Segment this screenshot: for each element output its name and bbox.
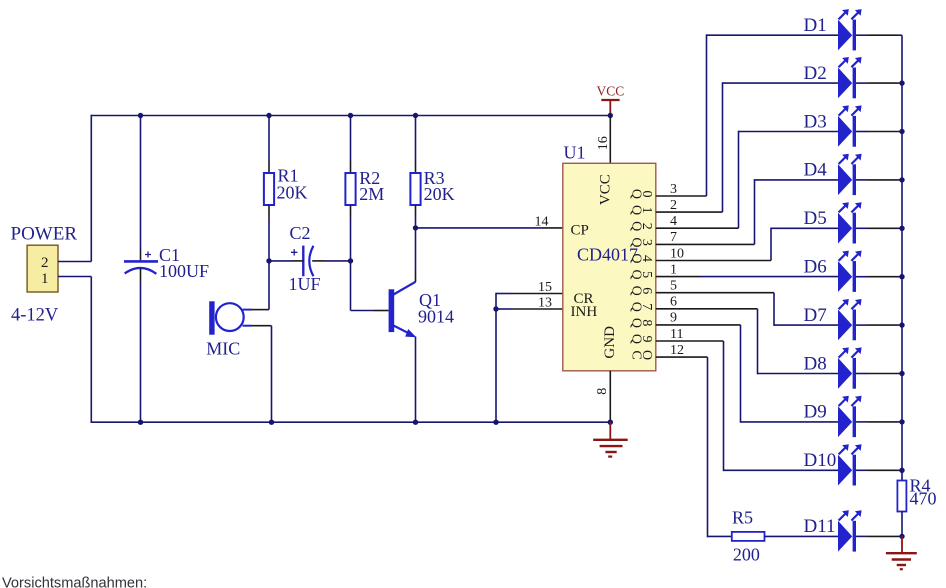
svg-text:13: 13 [538, 296, 552, 311]
node [413, 225, 418, 230]
svg-text:1: 1 [639, 207, 654, 214]
wire [898, 469, 902, 471]
wire [351, 310, 375, 312]
wire [868, 179, 898, 181]
svg-text:1: 1 [670, 262, 677, 277]
wire [415, 337, 417, 423]
wire [656, 308, 758, 310]
pin 16 [609, 116, 611, 164]
wire [738, 131, 740, 229]
wire [90, 115, 92, 262]
wire [723, 82, 839, 84]
wire [755, 179, 839, 181]
wire [856, 34, 868, 36]
svg-text:MIC: MIC [206, 338, 240, 358]
wire [656, 211, 723, 213]
node [138, 420, 143, 425]
svg-text:D10: D10 [804, 450, 837, 471]
svg-text:VCC: VCC [597, 84, 625, 99]
node [348, 258, 353, 263]
wire [656, 292, 774, 294]
resistor R3 [410, 173, 420, 205]
node [899, 534, 904, 539]
svg-text:12: 12 [670, 343, 684, 358]
pin 13 [511, 308, 563, 310]
node [608, 420, 613, 425]
wire [656, 243, 755, 245]
svg-text:GND: GND [602, 326, 618, 359]
svg-text:14: 14 [535, 214, 549, 229]
wire [416, 227, 543, 229]
svg-text:3: 3 [670, 182, 677, 197]
svg-text:10: 10 [670, 246, 684, 261]
wire [268, 309, 270, 311]
node [269, 420, 274, 425]
node [138, 113, 143, 118]
wire [898, 227, 902, 229]
svg-text:16: 16 [596, 136, 611, 150]
wire [271, 326, 273, 423]
LED D4 [838, 154, 862, 195]
node [899, 177, 904, 182]
svg-text:D2: D2 [804, 63, 827, 84]
svg-text:2: 2 [639, 223, 654, 230]
svg-text:8: 8 [595, 388, 610, 395]
wire [350, 261, 352, 311]
LED D10 [838, 444, 862, 485]
wire [898, 421, 902, 423]
wire [774, 324, 838, 326]
pin [312, 260, 325, 262]
pin [268, 161, 270, 173]
svg-text:O: O [639, 350, 654, 360]
pin 14 [542, 227, 563, 229]
node [899, 274, 904, 279]
wire [868, 469, 898, 471]
pin [415, 270, 417, 282]
wire [656, 276, 700, 278]
wire [722, 82, 724, 212]
wire [898, 179, 902, 181]
wire [758, 373, 839, 375]
svg-text:D3: D3 [804, 111, 827, 132]
wire [868, 82, 898, 84]
wire [495, 293, 497, 423]
svg-text:2M: 2M [359, 184, 384, 204]
node [899, 129, 904, 134]
node [348, 113, 353, 118]
pin [291, 260, 303, 262]
wire [140, 116, 142, 250]
transistor Q1 [389, 282, 417, 338]
node [266, 258, 271, 263]
svg-text:5: 5 [670, 279, 677, 294]
wire [901, 35, 903, 480]
wire [656, 260, 771, 262]
wire [765, 535, 839, 537]
wire [740, 325, 742, 423]
svg-text:4-12V: 4-12V [11, 306, 59, 326]
svg-text:1UF: 1UF [289, 274, 321, 294]
resistor R1 [264, 173, 274, 205]
wire [415, 116, 417, 162]
svg-text:0: 0 [639, 191, 654, 198]
svg-text:2: 2 [41, 255, 49, 271]
node [266, 113, 271, 118]
power VCC [597, 84, 625, 115]
LED D2 [838, 57, 862, 98]
svg-text:8: 8 [639, 319, 654, 326]
svg-text:U1: U1 [564, 143, 586, 163]
wire [856, 276, 868, 278]
svg-text:D1: D1 [804, 15, 827, 36]
LED D5 [838, 202, 862, 243]
pin [140, 268, 142, 281]
svg-text:R5: R5 [732, 507, 753, 527]
wire [773, 293, 775, 326]
pin [415, 161, 417, 173]
wire [350, 116, 352, 162]
resistor R5 [732, 532, 765, 541]
wire [868, 227, 898, 229]
pin [374, 310, 389, 312]
pin [350, 161, 352, 173]
wire [325, 260, 351, 262]
pin [243, 309, 252, 311]
wire [415, 217, 417, 270]
wire [868, 535, 898, 537]
LED D3 [838, 105, 862, 146]
ground [593, 422, 628, 456]
wire [757, 309, 759, 375]
pin [415, 205, 417, 217]
svg-text:C2: C2 [290, 223, 311, 243]
svg-text:3: 3 [639, 239, 654, 246]
pin 8 [609, 371, 611, 422]
pin 15 [511, 293, 563, 295]
svg-text:9: 9 [670, 311, 677, 326]
wire [656, 324, 741, 326]
wire [739, 131, 839, 133]
wire [268, 261, 270, 310]
svg-text:4: 4 [670, 214, 677, 229]
wire [741, 421, 839, 423]
wire [268, 116, 270, 162]
wire [898, 535, 902, 537]
svg-text:D8: D8 [804, 353, 827, 374]
wire [771, 227, 838, 229]
wire [856, 535, 868, 537]
LED D8 [838, 347, 862, 388]
wire [868, 421, 898, 423]
wire [350, 217, 352, 261]
wire [91, 421, 611, 423]
node [899, 80, 904, 85]
wire [898, 276, 902, 278]
wire [90, 277, 92, 423]
node [493, 420, 498, 425]
wire [700, 276, 838, 278]
wire [58, 276, 91, 278]
wire [856, 227, 868, 229]
node [413, 420, 418, 425]
svg-text:D11: D11 [804, 516, 836, 537]
node [493, 306, 498, 311]
pin [350, 205, 352, 217]
wire [496, 308, 511, 310]
LED D6 [838, 251, 862, 292]
pin [243, 325, 252, 327]
wire [723, 341, 725, 471]
wire [724, 469, 839, 471]
node [899, 468, 904, 473]
wire [268, 217, 270, 261]
wire [856, 179, 868, 181]
svg-text:CP: CP [571, 222, 589, 238]
svg-text:2: 2 [670, 198, 677, 213]
wire [91, 115, 611, 117]
svg-text:11: 11 [670, 327, 683, 342]
wire [868, 373, 898, 375]
svg-text:7: 7 [670, 230, 677, 245]
wire [898, 34, 902, 36]
svg-text:D4: D4 [804, 160, 828, 181]
svg-text:D7: D7 [804, 305, 827, 326]
svg-text:470: 470 [910, 488, 937, 508]
svg-text:VCC: VCC [598, 174, 614, 205]
svg-text:7: 7 [639, 303, 654, 310]
wire [868, 34, 898, 36]
ground [886, 536, 917, 569]
svg-text:100UF: 100UF [159, 261, 209, 281]
microphone MIC [209, 301, 244, 334]
wire [901, 512, 903, 537]
wire [868, 131, 898, 133]
wire [754, 179, 756, 244]
svg-text:9014: 9014 [418, 307, 454, 327]
node [899, 419, 904, 424]
node [413, 113, 418, 118]
svg-text:4: 4 [639, 255, 654, 262]
svg-text:20K: 20K [277, 182, 308, 202]
svg-text:5: 5 [639, 271, 654, 278]
wire [868, 324, 898, 326]
node [608, 113, 613, 118]
resistor R4 [897, 481, 906, 512]
svg-text:9: 9 [639, 336, 654, 343]
wire [856, 131, 868, 133]
wire [856, 373, 868, 375]
wire [856, 324, 868, 326]
node [899, 322, 904, 327]
svg-text:15: 15 [538, 280, 552, 295]
wire [656, 340, 724, 342]
wire [269, 260, 291, 262]
LED D7 [838, 299, 862, 340]
pin [268, 205, 270, 217]
connector J1 POWER [27, 245, 58, 292]
svg-text:D9: D9 [804, 402, 827, 423]
wire [707, 357, 709, 537]
svg-text:6: 6 [639, 287, 654, 294]
wire [898, 324, 902, 326]
node [899, 371, 904, 376]
wire [58, 261, 91, 263]
svg-text:1: 1 [41, 271, 49, 287]
wire [898, 373, 902, 375]
wire [270, 325, 272, 327]
node [899, 226, 904, 231]
wire [656, 227, 739, 229]
wire [707, 34, 839, 36]
svg-text:INH: INH [571, 304, 598, 320]
wire [708, 535, 732, 537]
LED D9 [838, 396, 862, 437]
svg-text:200: 200 [733, 544, 760, 564]
LED D11 [838, 510, 862, 551]
resistor R2 [345, 173, 355, 205]
svg-text:Vorsichtsmaßnahmen:: Vorsichtsmaßnahmen: [2, 576, 147, 588]
svg-text:6: 6 [670, 295, 677, 310]
wire [496, 293, 511, 295]
wire [856, 421, 868, 423]
pin [252, 325, 270, 327]
pin [252, 309, 268, 311]
wire [856, 82, 868, 84]
svg-text:D6: D6 [804, 257, 827, 278]
pin [140, 249, 142, 261]
wire [140, 281, 142, 422]
capacitor C1 [124, 252, 158, 274]
svg-text:D5: D5 [804, 208, 827, 229]
wire [706, 34, 708, 196]
wire [770, 228, 772, 261]
wire [898, 131, 902, 133]
svg-text:20K: 20K [424, 184, 455, 204]
svg-text:POWER: POWER [11, 224, 78, 245]
wire [898, 82, 902, 84]
LED D1 [838, 9, 862, 50]
wire [856, 469, 868, 471]
wire [868, 276, 898, 278]
wire [656, 195, 707, 197]
wire [656, 356, 708, 358]
op-amp U1 CD4017 [563, 163, 656, 370]
capacitor C2 [291, 246, 313, 277]
